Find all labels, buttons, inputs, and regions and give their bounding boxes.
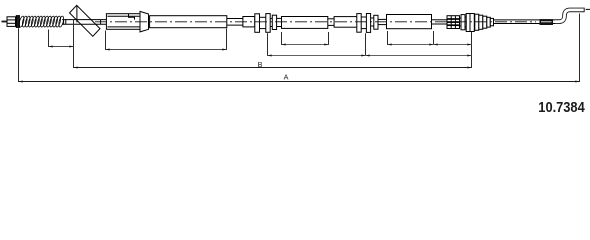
extension line at sheath A end [226,29,228,51]
neck [465,16,466,18]
sheath tube C [282,17,328,29]
neck [227,18,243,20]
neck [270,17,272,19]
svg-text:B: B [258,60,263,69]
grommet2 flange 1 [357,14,361,33]
dimension line sheath C [282,44,329,46]
extension line at sheath E end [433,31,435,45]
grommet flange 2 [266,14,270,33]
extension line at spring midpoint [48,30,50,48]
crimp stop [540,19,554,25]
collar [374,15,378,29]
tube B [243,17,255,27]
tube D [334,17,357,28]
thin cable [378,18,387,20]
end body [466,14,474,32]
neck [371,17,374,19]
dimension line grommet1-to-grommet2 [268,55,366,57]
flange [461,15,465,30]
adjuster block [7,17,16,27]
extension line at grommet 1 [267,33,269,56]
grommet2 flange 2 [366,14,370,33]
extension line at sheath C end [328,32,330,45]
arrowheads [19,44,580,83]
extension line at sheath E start [387,31,389,45]
dimension line B [74,67,472,69]
collar [272,15,276,29]
tail cable [494,19,560,21]
end tick [586,8,590,10]
right end Z-bend [555,10,584,22]
left threaded rod [2,21,8,23]
grommet flange 1 [255,14,260,33]
sheath tube A [150,16,227,28]
boot ribs [469,14,471,32]
thin cable [432,19,448,21]
sheath tube E [387,15,432,29]
grooved barrel [447,16,460,29]
extension line at left flange [18,28,20,82]
dimension line grommet2-to-fitting [366,55,472,57]
dimension line sheath E [388,44,434,46]
extension line at end fitting [471,32,473,68]
cone collar [140,11,149,32]
extension line at grommet 2 [365,33,367,56]
extension line at cable end [579,14,581,83]
dimension line A [19,81,580,83]
svg-text:A: A [284,73,289,82]
grommet2 middle [361,16,366,18]
centerline [95,21,536,23]
coil spring [18,16,25,28]
neck [460,17,462,19]
housing body [106,14,140,30]
extension line at sheath C start [281,32,283,45]
neck [328,18,334,20]
cable before bracket [62,19,106,21]
extension line at housing start [105,31,107,51]
dimension line sheath-E-end to fitting [434,44,472,46]
extension line at bracket [73,19,75,68]
svg-text:10.7384: 10.7384 [538,98,585,115]
dimension line housing-to-sheath-A-end [106,49,227,51]
cable end tick at housing [100,20,102,25]
grommet middle [260,16,266,18]
bracket (diagonal plate) [70,5,101,36]
end flange [16,16,19,28]
dimension line spring-to-bracket [49,46,74,48]
cable ferrule ticks [63,19,65,24]
